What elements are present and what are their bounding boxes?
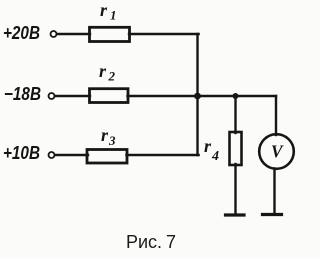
svg-text:r1: r1	[100, 0, 117, 23]
svg-text:V: V	[271, 142, 284, 162]
wire node to voltmeter	[275, 96, 277, 135]
wire vertical bus	[196, 34, 198, 155]
resistor r4	[230, 132, 242, 165]
wire terminal2 to r2	[55, 95, 90, 97]
resistor r3	[87, 150, 127, 164]
resistor r1	[90, 27, 130, 41]
wire node to r4	[234, 96, 236, 133]
wire terminal1 to r1	[57, 33, 90, 35]
wire r1 to bus	[129, 33, 199, 35]
terminal circle input 3	[49, 152, 55, 158]
svg-text:−18В: −18В	[4, 84, 41, 104]
svg-text:r3: r3	[101, 125, 116, 148]
wire r4 to ground	[234, 164, 236, 214]
wire terminal3 to r3	[55, 154, 88, 156]
resistor r2	[90, 89, 129, 103]
svg-text:r4: r4	[204, 136, 219, 164]
wire r3 to bus	[127, 154, 199, 156]
junction r4 tap	[233, 93, 239, 99]
voltmeter U1 circle	[259, 134, 294, 169]
terminal circle input 2	[49, 93, 55, 99]
junction bus/r2 line	[194, 93, 201, 100]
terminal circle input 1	[51, 31, 57, 37]
svg-text:+10В: +10В	[3, 143, 40, 163]
svg-text:r2: r2	[99, 61, 116, 84]
svg-text:+20В: +20В	[3, 23, 40, 43]
ground r4	[226, 213, 245, 216]
svg-text:Рис.: Рис.	[126, 232, 162, 252]
svg-text:7: 7	[166, 232, 176, 252]
wire voltmeter to ground	[273, 169, 275, 214]
ground voltmeter	[263, 213, 282, 216]
wire r2 to right corner	[128, 95, 277, 97]
